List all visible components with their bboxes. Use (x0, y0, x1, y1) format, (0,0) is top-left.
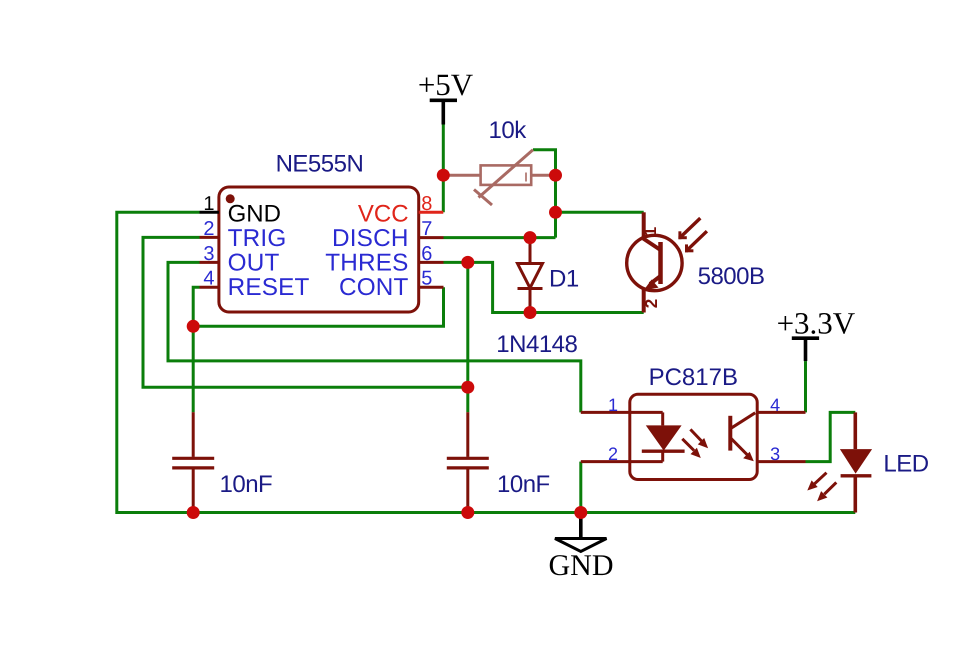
op-amp U1 NE555N body (219, 187, 419, 312)
power symbol +5V (418, 67, 474, 125)
svg-text:VCC: VCC (358, 201, 409, 228)
wire +3.3V down to PC817 pin4 (804, 361, 807, 412)
wire THRES vertical down to C2 (466, 262, 469, 412)
wire collector feed to 5800B (556, 211, 644, 214)
svg-text:1: 1 (608, 395, 618, 415)
junction D1 anode (524, 231, 537, 244)
svg-text:OUT: OUT (228, 250, 280, 277)
svg-text:LED: LED (883, 451, 928, 478)
light arrow 1 inside U2 (690, 429, 708, 448)
wire PC817 pin3 to LED anode (806, 412, 856, 461)
pin 1 stub (GND, black) (200, 211, 219, 214)
pin 4 stub (200, 286, 219, 289)
junction +5V/trimmer (437, 169, 450, 182)
light arrow 1 from LED (807, 473, 826, 491)
pin 2 stub of U2 (581, 460, 663, 463)
wire RESET net: pin4 left and down to junction (193, 287, 199, 412)
junction C1/ground rail (187, 506, 200, 519)
light arrow 2 into Q1 (685, 231, 707, 252)
wire +5V vertical to pin8 (442, 125, 445, 213)
svg-text:1: 1 (641, 227, 660, 236)
diode D1 1N4148 (518, 238, 543, 313)
light arrow 1 into Q1 (678, 218, 700, 239)
resistor R1 10k trimmer (443, 150, 555, 205)
pin 4 stub of U2 (757, 411, 805, 414)
wire OUT net: pin3 left, down, right, down to PC817 pin1 (168, 262, 581, 412)
svg-text:+5V: +5V (418, 67, 474, 102)
wire PC817 pin2 down to ground rail (579, 462, 582, 513)
pin 2 stub (200, 236, 219, 239)
junction C2/ground rail (461, 506, 474, 519)
svg-text:3: 3 (770, 444, 780, 464)
capacitor C1 10nF (172, 412, 214, 468)
junction trimmer right (549, 169, 562, 182)
capacitor C2 10nF (447, 412, 489, 512)
pin 8 stub (VCC, red) (419, 211, 444, 214)
svg-text:THRES: THRES (325, 250, 408, 277)
junction D1 cathode (524, 306, 537, 319)
svg-text:TRIG: TRIG (228, 225, 287, 252)
LED inside U2 (642, 412, 685, 461)
svg-text:3: 3 (203, 243, 214, 265)
svg-text:GND: GND (549, 549, 614, 582)
wire TRIG net: pin2 left, down, right to THRES vertical (143, 237, 468, 387)
svg-text:PC817B: PC817B (649, 364, 738, 391)
power symbol +3.3V (777, 306, 856, 362)
op-amp U2 PC817B optocoupler body (630, 394, 757, 479)
svg-text:7: 7 (421, 218, 432, 240)
svg-text:2: 2 (203, 218, 214, 240)
light arrow 2 from LED (817, 482, 836, 501)
junction TRIG/THRES (461, 381, 474, 394)
svg-text:NE555N: NE555N (276, 150, 364, 177)
transistor inside U2 (730, 413, 755, 462)
svg-text:5: 5 (421, 268, 432, 290)
pin 1 stub of U2 (581, 411, 663, 414)
ground symbol GND (549, 513, 614, 583)
pin 5 stub (419, 286, 444, 289)
svg-text:1N4148: 1N4148 (496, 331, 577, 358)
wire CONT net: pin5 down and left to RESET vertical (193, 287, 443, 326)
svg-text:4: 4 (770, 395, 780, 415)
pin 6 stub (419, 261, 444, 264)
svg-text:2: 2 (642, 299, 661, 308)
light arrow 2 inside U2 (682, 439, 701, 458)
svg-text:1: 1 (203, 193, 214, 215)
svg-text:10k: 10k (489, 117, 528, 144)
svg-text:5800B: 5800B (698, 263, 765, 290)
pin 3 stub of U2 (757, 460, 805, 463)
transistor Q1 5800B phototransistor (627, 212, 682, 312)
junction collector tap (549, 206, 562, 219)
junction RESET/CONT (187, 320, 200, 333)
svg-text:6: 6 (421, 243, 432, 265)
wire GND net: pin1 left, down, bottom rail to LED (117, 212, 856, 512)
svg-text:GND: GND (228, 201, 281, 228)
svg-text:4: 4 (203, 268, 214, 290)
wire pin7 DISCH horizontal (444, 236, 556, 239)
svg-text:+3.3V: +3.3V (777, 306, 856, 341)
capacitor C1 bottom lead (192, 469, 195, 512)
wire wiper net: trimmer top to vertical bus down to pin7 line (533, 150, 556, 238)
svg-text:10nF: 10nF (497, 471, 550, 498)
pin 7 stub (419, 236, 444, 239)
svg-text:CONT: CONT (339, 274, 409, 301)
svg-text:8: 8 (421, 193, 432, 215)
svg-text:D1: D1 (549, 266, 579, 293)
svg-text:DISCH: DISCH (332, 225, 409, 252)
LED D2 (840, 412, 872, 512)
svg-text:10nF: 10nF (220, 471, 273, 498)
svg-text:2: 2 (608, 444, 618, 464)
pin 3 stub (200, 261, 219, 264)
svg-text:RESET: RESET (228, 274, 310, 301)
wire pin6 THRES to D1 cathode and 5800B emitter (444, 262, 644, 312)
junction GND symbol (574, 506, 587, 519)
junction THRES (461, 256, 474, 269)
